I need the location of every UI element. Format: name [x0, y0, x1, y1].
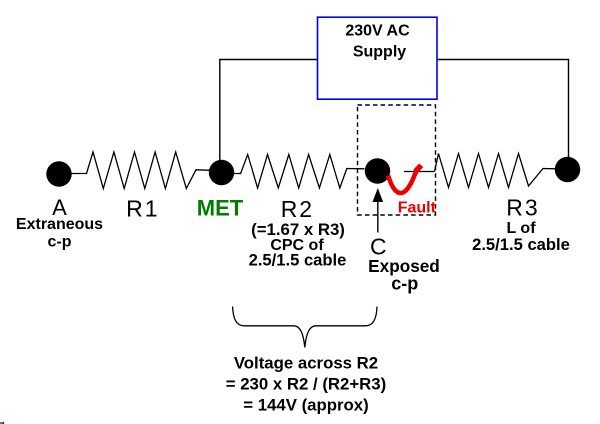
svg-text:R1: R1	[126, 196, 159, 222]
svg-text:2.5/1.5 cable: 2.5/1.5 cable	[249, 250, 347, 269]
svg-text:c-p: c-p	[48, 234, 72, 251]
dashed box around fault	[358, 105, 436, 215]
svg-text:R3: R3	[506, 195, 539, 221]
svg-text:230V AC: 230V AC	[345, 23, 410, 40]
wire: supply right down to node D	[437, 60, 569, 164]
svg-text:(=1.67 x R3): (=1.67 x R3)	[251, 220, 345, 239]
svg-text:2.5/1.5 cable: 2.5/1.5 cable	[472, 235, 570, 254]
wire: fault lead C to R3	[404, 171, 435, 173]
node A dot	[46, 161, 71, 186]
brace under R2	[233, 307, 377, 348]
svg-text:R2: R2	[281, 196, 314, 222]
node MET dot	[209, 160, 234, 185]
svg-text:= 230 x R2 / (R2+R3): = 230 x R2 / (R2+R3)	[226, 375, 386, 394]
fault squiggle	[388, 171, 416, 193]
svg-text:MET: MET	[197, 196, 244, 221]
node right dot	[555, 157, 580, 182]
corner artifact	[0, 422, 4, 424]
svg-text:c-p: c-p	[391, 274, 418, 294]
resistor R3	[435, 154, 557, 188]
arrow to node C	[373, 188, 384, 233]
svg-text:Fault: Fault	[398, 200, 437, 217]
svg-text:Voltage across R2: Voltage across R2	[234, 354, 378, 373]
resistor R1	[72, 152, 212, 189]
resistor R2	[234, 155, 365, 189]
node C dot	[365, 158, 390, 183]
svg-text:Extraneous: Extraneous	[16, 216, 103, 233]
svg-text:= 144V (approx): = 144V (approx)	[243, 396, 368, 415]
svg-text:Supply: Supply	[353, 44, 406, 61]
supply box	[318, 17, 438, 99]
wire: supply left to MET	[220, 60, 318, 166]
